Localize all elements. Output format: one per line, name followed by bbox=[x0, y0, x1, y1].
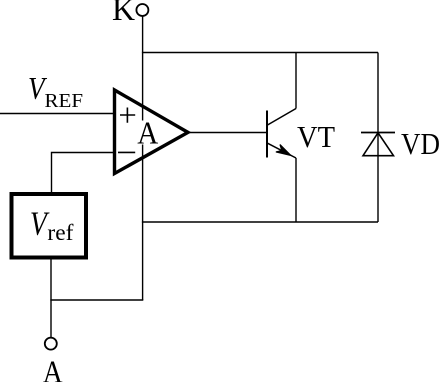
label VREF bbox=[28, 70, 83, 112]
svg-text:K: K bbox=[112, 0, 135, 27]
wire diode branch bbox=[377, 53, 379, 223]
diode VD bbox=[361, 133, 395, 156]
wire emitter bbox=[295, 158, 297, 222]
svg-text:REF: REF bbox=[45, 90, 84, 112]
wire anode branch bbox=[50, 299, 143, 301]
wire Vref to anode bbox=[50, 260, 52, 338]
voltage reference box Vref bbox=[12, 194, 87, 258]
transistor Q VT bbox=[267, 109, 296, 159]
terminal A bbox=[45, 338, 57, 350]
wire op-amp output to base bbox=[188, 132, 266, 134]
wire top rail bbox=[142, 52, 378, 54]
svg-text:A: A bbox=[137, 114, 158, 150]
wire collector bbox=[295, 53, 297, 109]
svg-text:VD: VD bbox=[401, 126, 440, 161]
wire cathode vertical bbox=[142, 16, 144, 300]
op-amp U1 A bbox=[115, 90, 189, 174]
svg-text:A: A bbox=[43, 354, 63, 382]
wire noninverting input bbox=[0, 113, 115, 115]
wire bottom rail bbox=[142, 221, 378, 223]
label Vref bbox=[30, 205, 74, 245]
svg-text:ref: ref bbox=[47, 220, 73, 245]
svg-text:VT: VT bbox=[297, 119, 335, 154]
wire inverting input bbox=[52, 153, 115, 193]
terminal K bbox=[136, 4, 148, 16]
